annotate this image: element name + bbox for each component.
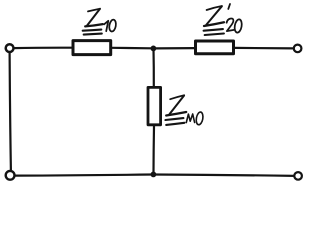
label Z'20 letter Z with prime (underlined) [204,4,230,35]
wire Z'20 to terminal 2 [235,47,294,50]
label Zm0 letter Z (underlined) [165,95,186,125]
label Z'20 subscript 20 [227,18,243,33]
terminal 1 (top-left port circle) [6,44,14,52]
wire Zm0 down to node B [152,126,155,172]
wire bottom rail (terminal 1' to terminal 2') [15,175,294,176]
label Z10 letter Z (underlined) [83,9,103,35]
node B (bottom junction dot) [151,172,157,178]
wire node A to Z'20 [156,47,194,50]
wire Z10 to node A [112,47,151,50]
resistor Z10 (series impedance box) [73,41,111,55]
resistor Z'20 (series impedance box) [196,41,234,54]
wire left side (terminal 1 down to terminal 1') [10,52,11,171]
wire node A down to Zm0 [152,49,155,87]
terminal 1' (bottom-left port circle) [6,171,15,180]
resistor Zm0 (shunt magnetizing impedance box) [148,87,161,124]
terminal 2' (bottom-right port circle) [294,172,302,180]
label Z10 subscript 10 [104,19,117,32]
wire top-left (terminal 1 to Z10) [14,47,72,50]
label Zm0 subscript M0 [186,112,204,126]
terminal 2 (top-right port circle) [294,45,302,53]
node A (top junction dot) [151,46,157,52]
